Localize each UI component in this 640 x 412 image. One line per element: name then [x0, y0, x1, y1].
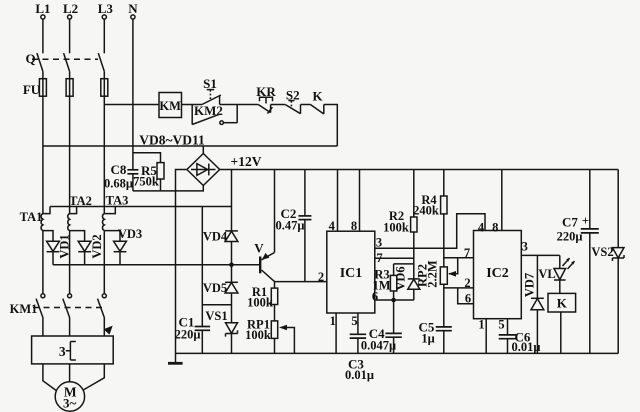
- terminal L1: [35, 1, 50, 19]
- wire K return to phase line: [324, 105, 338, 147]
- wire bridge DC- to ground rail: [176, 170, 187, 354]
- capacitor C5 1u: [419, 320, 452, 354]
- current transformer TA3: [102, 194, 128, 242]
- svg-text:VD3: VD3: [118, 227, 142, 241]
- svg-text:C7: C7: [562, 215, 578, 230]
- wire KR to S2: [271, 104, 286, 106]
- svg-text:KM2: KM2: [194, 103, 223, 118]
- svg-text:8: 8: [492, 221, 498, 235]
- svg-text:100k: 100k: [247, 296, 273, 310]
- diode VD6: [394, 266, 420, 300]
- svg-text:IC1: IC1: [340, 266, 363, 281]
- capacitor C2 0.47u: [276, 170, 312, 282]
- terminal L2: [63, 1, 78, 19]
- svg-text:+: +: [582, 213, 589, 228]
- capacitor C7 220u: [557, 170, 599, 354]
- contactor coil KM: [159, 93, 182, 118]
- switch Q: [25, 51, 104, 71]
- svg-text:L2: L2: [63, 1, 78, 16]
- svg-text:V: V: [254, 241, 264, 256]
- svg-text:2.2M: 2.2M: [426, 260, 440, 288]
- junction node B (sense bus / clamp): [229, 263, 234, 268]
- thermal relay contact KR (NC): [256, 84, 276, 114]
- IC2 pin 8: [492, 170, 502, 235]
- wire L3 drop to switch: [103, 19, 105, 53]
- capacitor C4 0.047u: [361, 300, 402, 353]
- IC1 pin 5 and capacitor C3: [345, 313, 374, 382]
- svg-text:0.47μ: 0.47μ: [276, 219, 305, 233]
- potentiometer RP2 2.2M: [416, 258, 458, 327]
- relay contact K: [310, 89, 323, 115]
- IC2 pin 1: [478, 318, 486, 354]
- IC1 pin 1: [330, 313, 337, 353]
- svg-text:5: 5: [498, 318, 504, 332]
- svg-text:4: 4: [329, 219, 336, 233]
- capacitor C1 220u: [175, 207, 211, 354]
- wire phase L1 feed line (bridge AC1): [43, 145, 337, 147]
- ground symbol: [168, 353, 183, 363]
- wire S2 to K: [301, 104, 311, 106]
- svg-text:1: 1: [330, 314, 336, 328]
- IC2 pin 6 loop: [458, 288, 474, 306]
- IC1 (555 timer): [327, 231, 375, 313]
- wire Q to FU (L1): [42, 71, 44, 78]
- IC1 pin 4: [329, 170, 338, 234]
- svg-text:L1: L1: [35, 1, 50, 16]
- svg-text:4: 4: [478, 221, 485, 235]
- svg-text:VD7: VD7: [523, 273, 537, 297]
- wire N drop: [132, 19, 134, 146]
- svg-text:VS1: VS1: [205, 309, 227, 323]
- wire S1 to KR: [220, 104, 259, 106]
- svg-text:+12V: +12V: [231, 154, 262, 169]
- potentiometer RP1 100k: [245, 318, 294, 354]
- svg-text:VS2: VS2: [591, 245, 613, 259]
- svg-text:VL: VL: [538, 267, 555, 281]
- svg-text:8: 8: [351, 219, 357, 233]
- svg-text:FU: FU: [23, 82, 41, 97]
- wire L1 phase down to TA1: [42, 96, 44, 213]
- IC2 pin 5 and capacitor C6: [498, 318, 540, 355]
- svg-text:3: 3: [522, 240, 528, 254]
- contactor main contacts KM1: [10, 231, 107, 336]
- wire L2 phase down to TA2: [69, 96, 71, 213]
- svg-text:100k: 100k: [245, 328, 271, 342]
- wire L2 drop to switch: [69, 19, 71, 53]
- IC2 (555 timer): [474, 231, 522, 319]
- resistor R3 1M: [372, 264, 413, 300]
- junction dot pin6 node: [391, 298, 396, 303]
- zener VS1: [205, 309, 237, 353]
- svg-text:K: K: [312, 89, 323, 104]
- svg-text:240k: 240k: [413, 204, 439, 218]
- pushbutton S1 (start, NO): [202, 76, 221, 105]
- svg-text:KM: KM: [159, 99, 181, 113]
- zener VS2: [591, 170, 624, 354]
- svg-text:0.01μ: 0.01μ: [512, 340, 541, 354]
- IC1 pin 6 wire: [372, 290, 414, 304]
- transistor V (PNP): [254, 170, 274, 282]
- fuse FU (three cartridges): [23, 79, 108, 97]
- svg-text:3: 3: [59, 344, 66, 359]
- current transformer TA2: [68, 194, 92, 241]
- wire sense bus (diode outputs to V base): [53, 264, 260, 266]
- resistor R5 750k: [133, 163, 164, 191]
- wire L1 drop to switch: [42, 19, 44, 53]
- svg-text:5: 5: [351, 314, 357, 328]
- svg-text:0.047μ: 0.047μ: [361, 339, 396, 353]
- motor M 3~: [43, 364, 104, 411]
- wire TA secondary common bus: [50, 206, 232, 208]
- svg-text:IC2: IC2: [486, 266, 509, 281]
- terminal N: [128, 1, 138, 19]
- svg-text:K: K: [557, 296, 568, 311]
- thermal overload element box "3": [32, 336, 114, 364]
- wire C1 column to VS1 top node: [202, 304, 231, 306]
- wire control tap L3 to KM coil: [104, 104, 159, 106]
- svg-text:6: 6: [372, 290, 378, 304]
- svg-text:0.01μ: 0.01μ: [345, 368, 374, 382]
- svg-text:VD4: VD4: [203, 230, 228, 244]
- resistor R1 100k: [247, 282, 278, 321]
- svg-text:1μ: 1μ: [421, 332, 434, 346]
- resistor R4 240k: [413, 170, 447, 267]
- svg-text:C8: C8: [111, 162, 127, 177]
- svg-text:VD5: VD5: [203, 281, 227, 295]
- wire KM to S1: [182, 104, 203, 106]
- resistor R2 100k: [383, 170, 417, 279]
- diode VD5: [203, 281, 238, 323]
- svg-text:220μ: 220μ: [557, 230, 583, 244]
- IC2 pin 2 wire: [444, 276, 474, 290]
- diode VD3: [114, 227, 143, 265]
- diode VD4: [203, 230, 238, 283]
- diode VD2: [78, 234, 104, 264]
- diode VD1: [47, 234, 72, 264]
- capacitor C8 0.68u: [104, 146, 138, 191]
- svg-text:100k: 100k: [383, 221, 409, 235]
- wire N tap to R5: [133, 153, 161, 163]
- IC1 pin 7 wire: [375, 251, 414, 265]
- wire +12V to VD4: [231, 170, 233, 231]
- svg-text:2: 2: [318, 270, 324, 284]
- svg-text:VD6: VD6: [394, 266, 408, 290]
- svg-text:TA3: TA3: [106, 194, 129, 208]
- svg-text:N: N: [128, 1, 138, 16]
- IC2 pin 7 wire: [444, 246, 474, 260]
- bridge rectifier VD8~VD11: [139, 133, 219, 186]
- +12V rail: [220, 154, 619, 170]
- svg-text:L3: L3: [98, 1, 114, 16]
- svg-text:VD8~VD11: VD8~VD11: [139, 133, 205, 148]
- adjustment arrow on overload: [104, 326, 113, 335]
- wire C8/R5 node to bridge AC2: [133, 186, 203, 191]
- wire L3 phase down to TA3: [103, 96, 105, 213]
- svg-text:3~: 3~: [63, 396, 77, 411]
- relay coil K: [548, 293, 576, 353]
- terminal L3: [98, 1, 114, 19]
- svg-text:750k: 750k: [133, 175, 159, 189]
- IC1 pin 3 route to IC2 pin 4: [375, 214, 485, 250]
- svg-text:TA1: TA1: [20, 210, 43, 224]
- svg-text:0.68μ: 0.68μ: [104, 177, 133, 191]
- contact KM2 (self-hold branch): [192, 103, 237, 125]
- svg-text:S1: S1: [203, 76, 217, 91]
- pushbutton S2 (stop, NC): [285, 88, 300, 114]
- wire Q to FU (L2): [69, 71, 71, 78]
- LED VL: [538, 255, 575, 293]
- IC1 pin 8: [351, 170, 360, 234]
- svg-text:KM1: KM1: [10, 302, 38, 316]
- current transformer TA1: [20, 207, 53, 242]
- IC2 pin 3 wire: [521, 240, 560, 256]
- svg-text:VD2: VD2: [90, 234, 104, 258]
- diode VD7 (flyback): [523, 255, 544, 353]
- svg-text:1: 1: [478, 318, 484, 332]
- svg-text:3: 3: [376, 236, 382, 250]
- ground bus: [176, 352, 619, 354]
- wire Q to FU (L3): [103, 71, 105, 78]
- wire V collector to IC1 pin2: [275, 281, 327, 283]
